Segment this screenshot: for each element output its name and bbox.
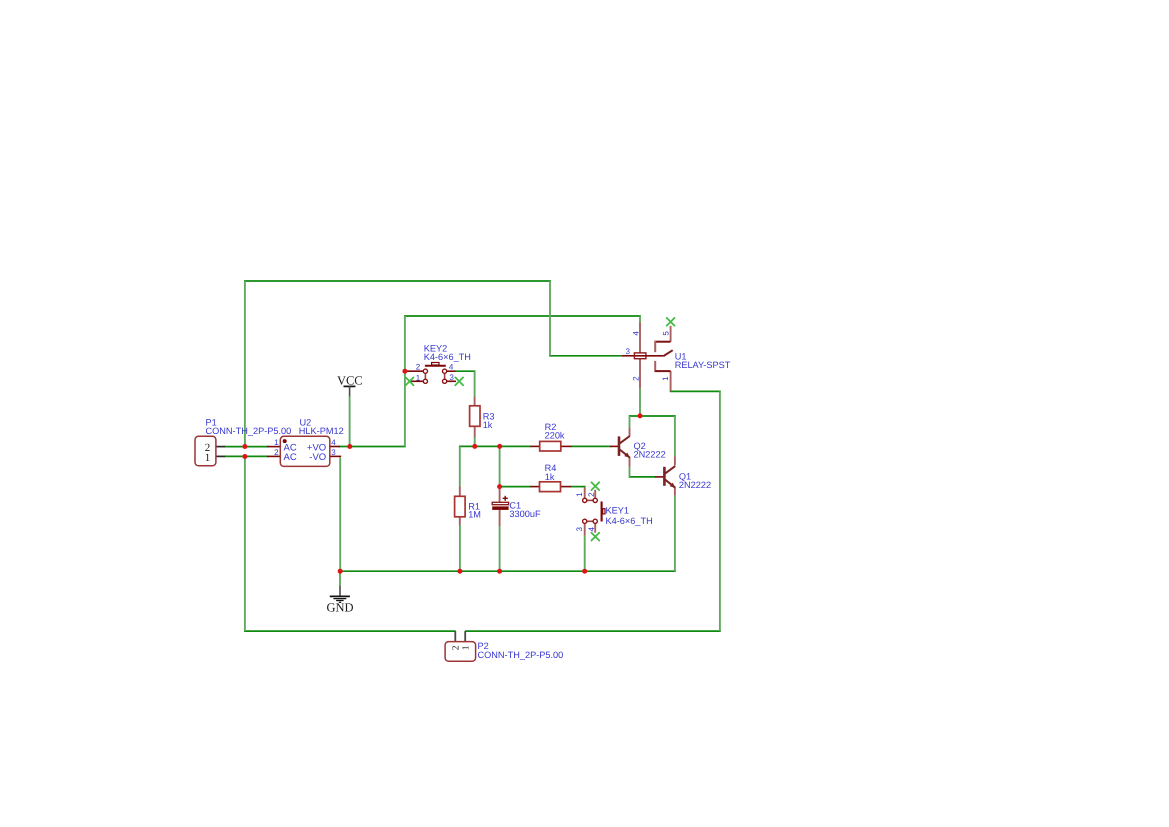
svg-text:1: 1 <box>461 645 471 650</box>
svg-text:3: 3 <box>626 347 631 356</box>
svg-text:AC: AC <box>284 452 297 463</box>
svg-text:GND: GND <box>326 601 353 615</box>
svg-text:1: 1 <box>274 438 279 447</box>
svg-text:K4-6×6_TH: K4-6×6_TH <box>424 352 471 362</box>
svg-text:4: 4 <box>449 362 454 371</box>
svg-text:1: 1 <box>575 492 584 497</box>
svg-text:2: 2 <box>274 448 279 457</box>
svg-text:2: 2 <box>631 376 640 381</box>
svg-text:CONN-TH_2P-P5.00: CONN-TH_2P-P5.00 <box>478 650 564 660</box>
svg-text:3: 3 <box>331 448 336 457</box>
svg-text:-VO: -VO <box>309 452 326 463</box>
svg-text:1k: 1k <box>545 472 555 482</box>
svg-text:4: 4 <box>331 438 336 447</box>
svg-text:HLK-PM12: HLK-PM12 <box>299 426 344 436</box>
svg-text:3300uF: 3300uF <box>509 509 541 519</box>
svg-text:2: 2 <box>451 645 461 650</box>
svg-text:1: 1 <box>661 376 670 381</box>
svg-text:VCC: VCC <box>337 373 363 387</box>
svg-text:4: 4 <box>587 527 596 532</box>
svg-text:1k: 1k <box>483 420 493 430</box>
svg-text:K4-6×6_TH: K4-6×6_TH <box>606 516 653 526</box>
svg-text:CONN-TH_2P-P5.00: CONN-TH_2P-P5.00 <box>206 426 292 436</box>
svg-text:2N2222: 2N2222 <box>634 450 666 460</box>
svg-text:4: 4 <box>631 331 640 336</box>
svg-text:3: 3 <box>575 527 584 532</box>
svg-text:220k: 220k <box>545 430 565 440</box>
svg-text:1: 1 <box>205 452 211 464</box>
svg-text:KEY1: KEY1 <box>606 505 630 515</box>
svg-text:1M: 1M <box>468 510 481 520</box>
svg-text:3: 3 <box>449 373 454 382</box>
svg-text:2N2222: 2N2222 <box>679 480 711 490</box>
svg-text:1: 1 <box>416 373 421 382</box>
svg-text:2: 2 <box>587 492 596 497</box>
svg-text:5: 5 <box>662 331 671 336</box>
svg-text:RELAY-SPST: RELAY-SPST <box>675 360 731 370</box>
svg-text:2: 2 <box>416 362 421 371</box>
